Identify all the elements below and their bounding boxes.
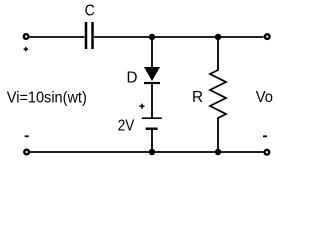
- wire resistor bottom to bottom node: [217, 118, 219, 153]
- terminal top-left (+ input): [24, 34, 29, 39]
- svg-text:Vi=10sin(wt): Vi=10sin(wt): [7, 89, 87, 106]
- wire node to resistor top: [217, 37, 219, 71]
- terminal bottom-left (- input): [24, 150, 29, 155]
- node: top of resistor branch: [215, 34, 221, 40]
- capacitor C: [86, 22, 93, 49]
- svg-text:Vo: Vo: [256, 89, 273, 106]
- wire diode cathode to battery: [151, 83, 153, 118]
- plus sign at top-left terminal: [24, 47, 28, 51]
- minus sign at bottom-left terminal: [25, 135, 29, 137]
- battery 2V: [142, 118, 162, 129]
- node: top of diode branch: [149, 34, 155, 40]
- bottom wire: [30, 151, 264, 153]
- svg-text:D: D: [127, 69, 138, 86]
- node: bottom of diode branch: [149, 149, 155, 155]
- wire capacitor to top-right terminal: [94, 36, 263, 38]
- minus sign at bottom-right terminal: [263, 135, 267, 137]
- wire node to diode anode: [151, 37, 153, 68]
- diode D (pointing down): [144, 67, 160, 83]
- terminal bottom-right: [265, 150, 270, 155]
- plus sign at battery: [140, 104, 145, 109]
- terminal top-right: [265, 34, 270, 39]
- node: bottom of resistor branch: [215, 149, 221, 155]
- resistor R (zigzag): [210, 70, 226, 118]
- svg-text:R: R: [192, 89, 203, 106]
- wire top-left to capacitor: [29, 36, 85, 38]
- wire battery to bottom node: [151, 129, 153, 152]
- svg-text:C: C: [85, 2, 95, 19]
- svg-text:2V: 2V: [118, 118, 135, 135]
